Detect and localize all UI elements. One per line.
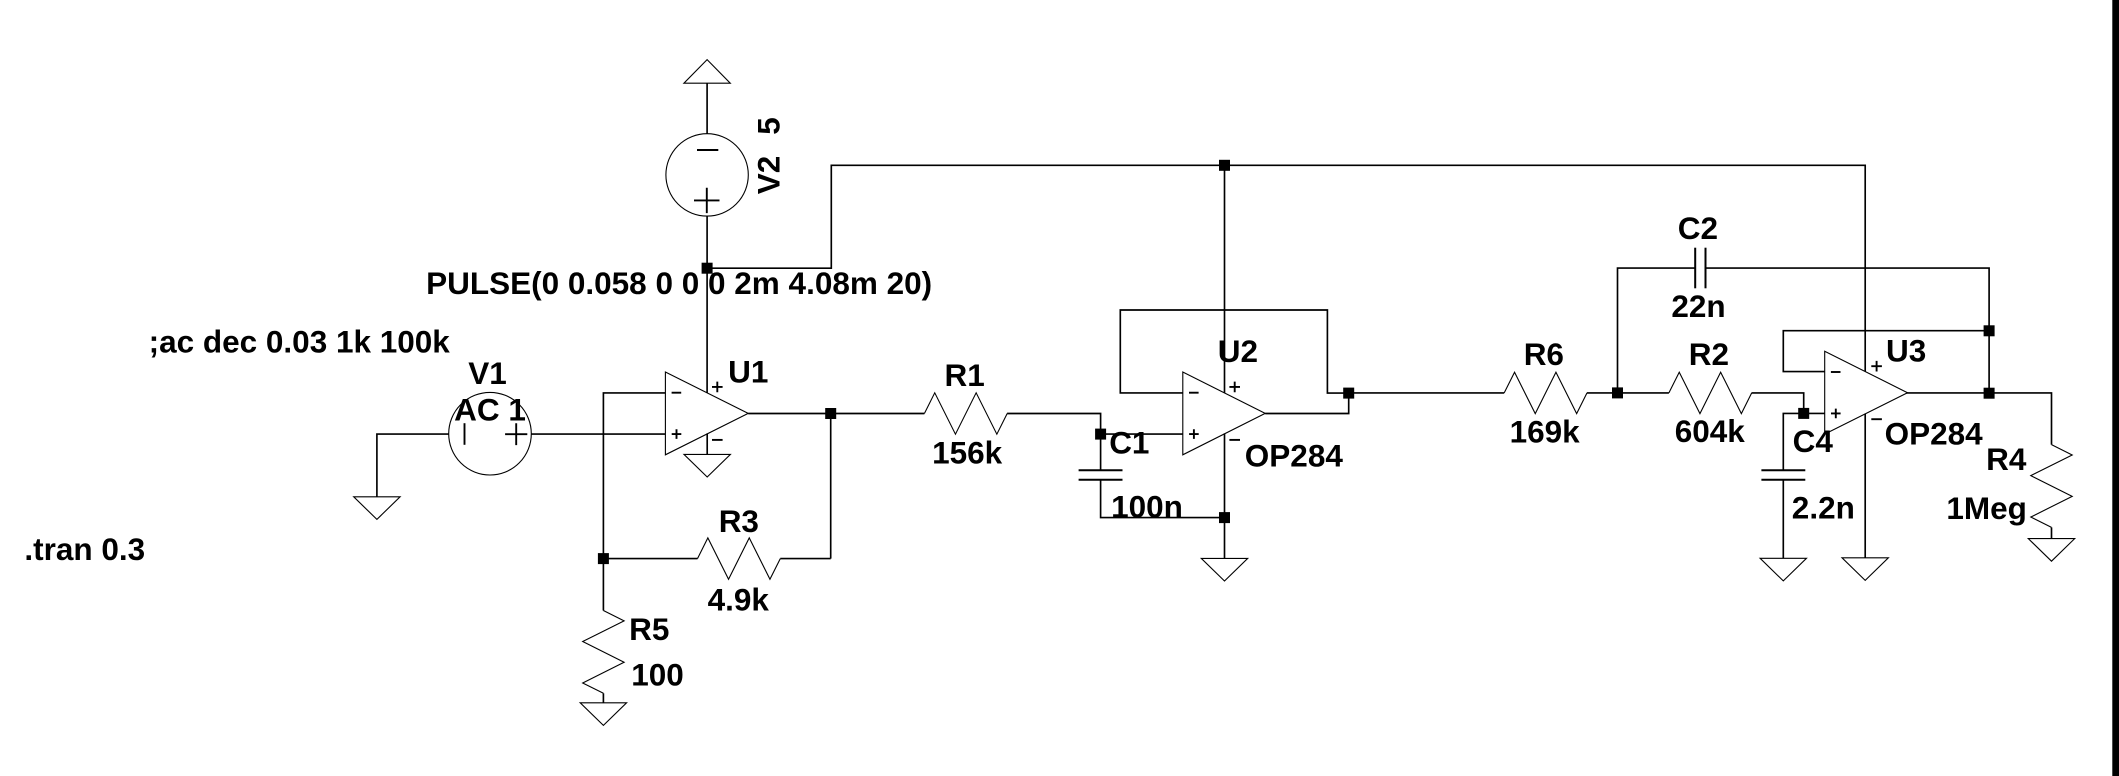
svg-text:U2: U2 xyxy=(1218,333,1258,369)
wire U3 output to R4 xyxy=(1906,393,2051,445)
node rail/U2 V+ junction xyxy=(1219,160,1230,171)
wire R5 bottom stub to ground xyxy=(602,693,604,703)
svg-text:R2: R2 xyxy=(1689,336,1729,372)
wire R1 to C1 node to U2 noninverting input xyxy=(1007,414,1183,435)
svg-text:R6: R6 xyxy=(1524,336,1564,372)
wire V2 top to flipped ground xyxy=(706,83,708,134)
ground (R4) xyxy=(2028,539,2074,562)
wire U1 inverting input left and down to R3/R5 node xyxy=(603,393,665,559)
wire U2 output node to R6 xyxy=(1349,392,1505,394)
wire V1 right terminal to U1 noninverting input xyxy=(531,433,665,435)
wire U2 output to node xyxy=(1265,393,1349,413)
svg-text:22n: 22n xyxy=(1671,288,1725,324)
wire U2 V- pin through node to ground xyxy=(1224,433,1226,558)
svg-text:V2: V2 xyxy=(751,156,787,195)
svg-text:AC 1: AC 1 xyxy=(454,391,526,427)
svg-text:C1: C1 xyxy=(1109,424,1149,460)
voltage source V1 xyxy=(449,392,532,475)
wire rail down to U2 V+ pin xyxy=(1224,165,1226,393)
op-amp U1 xyxy=(665,372,748,455)
resistor R1 xyxy=(924,393,1007,434)
svg-text:PULSE(0 0.058 0 0 0 2m 4.08m 2: PULSE(0 0.058 0 0 0 2m 4.08m 20) xyxy=(426,265,932,301)
wire U3 feedback loop inverting input to output node xyxy=(1783,331,1989,372)
wire V+ rail: node right, up, across top, down to U3 V+ xyxy=(707,165,1865,371)
capacitor C1 xyxy=(1079,470,1123,480)
node R6/R2/C2 junction xyxy=(1612,387,1623,398)
wire node to U1 V+ pin xyxy=(706,268,708,393)
svg-text:V1: V1 xyxy=(468,355,507,391)
ground (U3 V-) xyxy=(1842,558,1888,581)
svg-text:R4: R4 xyxy=(1986,441,2027,477)
svg-text:R5: R5 xyxy=(629,611,669,647)
svg-text:OP284: OP284 xyxy=(1885,416,1984,452)
svg-text:5: 5 xyxy=(751,117,787,135)
svg-text:604k: 604k xyxy=(1675,413,1746,449)
resistor R5 xyxy=(583,611,624,694)
svg-text:100: 100 xyxy=(631,657,684,693)
node U2 output junction xyxy=(1343,388,1354,399)
wire U1 V- pin to ground xyxy=(706,433,708,454)
wire C1 node down to top plate xyxy=(1100,434,1102,470)
resistor R4 xyxy=(2031,445,2072,528)
ground (flipped, V2 positive rail) xyxy=(684,60,730,84)
resistor R2 xyxy=(1669,372,1752,413)
svg-text:R1: R1 xyxy=(945,357,985,393)
node R2/C4/U3 input junction xyxy=(1798,408,1809,419)
resistor R6 xyxy=(1504,372,1587,413)
svg-text:156k: 156k xyxy=(932,434,1003,470)
svg-text:C2: C2 xyxy=(1678,210,1718,246)
ground (U1 V-) xyxy=(684,454,730,477)
wire C2 right plate to right vertical down to U3 output node xyxy=(1706,268,1990,393)
wire R2 right to U3 noninverting node xyxy=(1752,393,1825,414)
node C1/U2 input junction xyxy=(1095,429,1106,440)
op-amp U2 xyxy=(1183,372,1265,455)
svg-text:.tran 0.3: .tran 0.3 xyxy=(24,531,145,567)
wire U2 feedback loop inverting input to output node xyxy=(1120,310,1348,393)
op-amp U3 xyxy=(1825,351,1908,434)
node U3 feedback/C2 junction xyxy=(1984,325,1995,336)
resistor R3 xyxy=(698,538,781,579)
wire R6 to C2 node to R2 xyxy=(1587,392,1669,394)
wire C4 bottom plate to ground xyxy=(1782,480,1784,559)
wire R3 left stub xyxy=(603,558,697,560)
wire V2 bottom to node xyxy=(706,216,708,268)
svg-text:C4: C4 xyxy=(1793,423,1834,459)
capacitor C4 xyxy=(1761,470,1805,480)
wire U1 output node to R1 xyxy=(831,413,925,415)
node C1/U2 V- junction xyxy=(1219,512,1230,523)
wire R3 right stub xyxy=(780,558,830,560)
wire R5 top stub xyxy=(602,559,604,611)
wire U3 V- pin to ground xyxy=(1864,414,1866,558)
svg-text:1Meg: 1Meg xyxy=(1946,490,2027,526)
svg-text:U1: U1 xyxy=(728,354,768,390)
svg-text:OP284: OP284 xyxy=(1245,437,1344,473)
svg-text:;ac dec 0.03 1k 100k: ;ac dec 0.03 1k 100k xyxy=(149,323,451,359)
svg-text:100n: 100n xyxy=(1111,489,1183,525)
svg-text:U3: U3 xyxy=(1886,333,1926,369)
wire U3 noninverting node to C4 top plate xyxy=(1783,413,1803,470)
wire R4 bottom stub to ground xyxy=(2051,527,2053,538)
voltage source V2 xyxy=(666,134,748,216)
ground (R5) xyxy=(580,703,626,726)
svg-text:R3: R3 xyxy=(719,503,759,539)
svg-text:4.9k: 4.9k xyxy=(708,582,770,618)
node R3/R5 junction xyxy=(598,553,609,564)
node U3 output junction xyxy=(1984,388,1995,399)
node V2/PULSE junction xyxy=(702,263,713,274)
wire U1 output node down to R3 xyxy=(830,414,832,559)
wire C2 branch: node up, right to left plate xyxy=(1618,268,1696,393)
svg-text:169k: 169k xyxy=(1510,414,1581,450)
wire U1 output to node xyxy=(748,413,831,415)
ground (U2 V-) xyxy=(1201,558,1247,581)
wire V1 left terminal to ground xyxy=(377,434,449,497)
ground (C4) xyxy=(1760,558,1806,581)
ground (V1) xyxy=(354,497,400,520)
svg-text:2.2n: 2.2n xyxy=(1792,490,1855,526)
wire C1 bottom plate to U2 V- node xyxy=(1101,480,1225,518)
node U1 output junction xyxy=(825,408,836,419)
capacitor C2 xyxy=(1695,248,1705,289)
